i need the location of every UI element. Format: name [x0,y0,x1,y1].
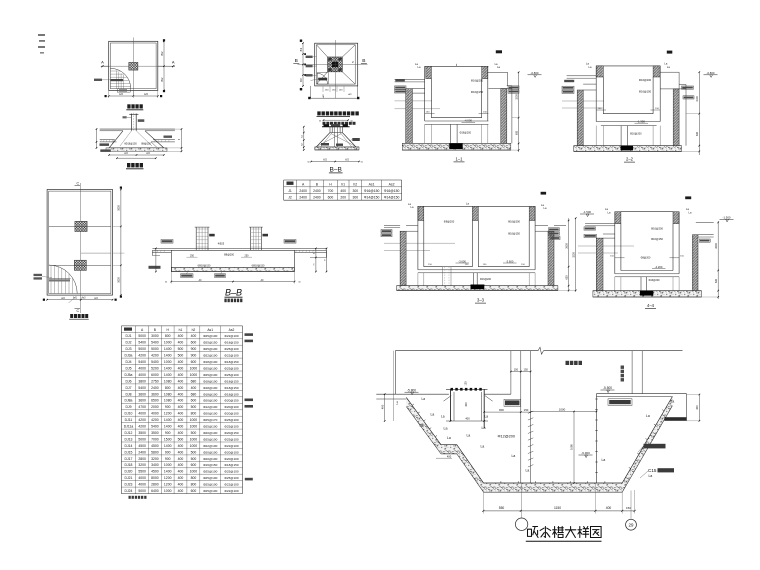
svg-text:Φ25@100: Φ25@100 [224,476,238,480]
svg-text:Φ20@150: Φ20@150 [224,431,238,435]
lining outer edge [406,406,672,493]
svg-text:B/2: B/2 [160,77,164,81]
svg-text:400: 400 [178,431,184,435]
svg-text:Φ25@100: Φ25@100 [203,334,217,338]
svg-text:500: 500 [191,457,197,461]
svg-text:5000: 5000 [138,437,146,441]
svg-text:Φ25@100: Φ25@100 [203,425,217,429]
svg-text:DJ10: DJ10 [125,412,133,416]
svg-text:J2: J2 [288,196,292,200]
svg-text:8000: 8000 [151,476,159,480]
svg-text:Φ12@100: Φ12@100 [203,405,217,409]
pit 4-4 top slab and heads [605,207,692,223]
raft section right dims [314,248,328,273]
svg-text:Φ25@100: Φ25@100 [224,373,238,377]
footing section right dims [164,128,183,152]
svg-text:-1.500: -1.500 [583,210,591,214]
svg-text:Φ22@100: Φ22@100 [203,444,217,448]
svg-text:Φ25@100: Φ25@100 [224,367,238,371]
svg-text:2400: 2400 [151,386,159,390]
svg-text:Φ22@100: Φ22@100 [224,444,238,448]
pit 2-2 sump pipe [621,126,643,151]
svg-text:h1: h1 [179,328,183,332]
svg-text:3200: 3200 [573,252,576,258]
raft plan column blocks [49,221,111,270]
svg-text:500: 500 [178,437,184,441]
svg-text:400: 400 [464,402,468,407]
svg-text:1000: 1000 [164,489,172,493]
pit 1-1 right upper step and elevation [488,71,542,86]
svg-text:Φ16@200: Φ16@200 [651,227,663,231]
svg-text:4Φ25: 4Φ25 [218,241,225,245]
svg-text:600: 600 [191,463,197,467]
svg-text:Φ25@100: Φ25@100 [224,437,238,441]
svg-text:Φ20@100: Φ20@100 [203,457,217,461]
pit 4-4 title [645,303,656,309]
svg-text:400: 400 [178,392,184,396]
pit 4-4 name blob [685,196,691,199]
svg-text:La: La [447,436,451,440]
svg-text:5400: 5400 [151,360,159,364]
pedestal J plan outer square [315,43,358,86]
svg-text:400: 400 [178,399,184,403]
svg-text:1000: 1000 [190,367,198,371]
svg-text:B/2: B/2 [160,51,164,55]
pedestal section title B-B [329,166,343,173]
svg-text:3600: 3600 [138,399,146,403]
svg-text:-1.350: -1.350 [637,120,645,124]
svg-text:1000: 1000 [190,373,198,377]
svg-text:DJ23: DJ23 [125,483,133,487]
svg-text:Φ18@100: Φ18@100 [203,386,217,390]
svg-text:Φ8@200: Φ8@200 [224,254,235,257]
pit 3-3 rebar texts [444,220,521,236]
drain circle plain [515,483,527,530]
pit 3-3 right dimensions [558,217,577,291]
svg-text:Φ20@150: Φ20@150 [224,399,238,403]
svg-text:Φ20@100: Φ20@100 [224,457,238,461]
raft section bottom dims [165,272,302,284]
svg-text:A/2: A/2 [323,159,327,162]
svg-text:A: A [101,60,104,65]
svg-text:5000: 5000 [118,205,121,211]
section marker B-B left [293,58,299,64]
svg-text:Φ22@100: Φ22@100 [224,354,238,358]
svg-text:7000: 7000 [151,437,159,441]
dim row 800 150 right of sump [483,408,531,413]
svg-text:Φ25@150: Φ25@150 [203,341,217,345]
svg-text:-1.500: -1.500 [723,216,731,220]
svg-text:400: 400 [178,373,184,377]
svg-text:Φ16@200: Φ16@200 [460,131,472,134]
svg-text:5000: 5000 [151,347,159,351]
svg-text:La: La [441,415,445,419]
svg-text:DJ14: DJ14 [125,444,133,448]
svg-text:200: 200 [340,196,346,200]
pit 2-2 name blob [667,51,673,54]
svg-text:4200: 4200 [151,354,159,358]
fig3 bottom dimension band [308,86,359,99]
svg-text:DJ7: DJ7 [125,386,131,390]
svg-text:Φ18@100: Φ18@100 [203,360,217,364]
right chamber wall [595,386,686,483]
svg-text:600: 600 [565,275,568,280]
svg-text:Φ16@150: Φ16@150 [471,90,484,94]
slope tick marks [412,404,664,483]
pit 4-4 right dimension [701,221,719,299]
pedestal section anchor text row [323,122,356,125]
pit 3-3 top slab and heads [408,202,547,221]
raft plan bottom dimension [43,296,117,303]
svg-text:Φ16@150: Φ16@150 [364,189,380,193]
svg-text:DJ9: DJ9 [125,405,131,409]
svg-text:1400: 1400 [164,354,172,358]
svg-text:1400: 1400 [164,470,172,474]
pit 2-2 chamber floor [596,108,660,146]
svg-text:5200: 5200 [151,367,159,371]
svg-text:Φ18@100: Φ18@100 [224,392,238,396]
svg-text:DJ5: DJ5 [125,367,131,371]
svg-text:600: 600 [328,196,334,200]
svg-text:680: 680 [191,379,197,383]
svg-text:As2: As2 [389,182,395,186]
svg-text:400: 400 [695,405,699,410]
svg-text:500: 500 [191,405,197,409]
pit 2-2 right upper step and elevation [660,71,717,89]
svg-text:700: 700 [328,189,334,193]
pit 1-1 left retaining wall [406,89,425,144]
left floor ledge [376,388,449,404]
svg-text:DJ20: DJ20 [125,470,133,474]
right side La labels [602,400,675,479]
svg-text:400: 400 [178,412,184,416]
svg-text:4200: 4200 [151,418,159,422]
pit 1-1 sump pipe [449,124,471,149]
svg-text:3500: 3500 [138,431,146,435]
svg-text:4500: 4500 [151,470,159,474]
detail left wall edge [394,351,396,421]
pit 4-4 bottom slab [593,291,702,297]
svg-text:1000: 1000 [190,425,198,429]
svg-text:A/2: A/2 [144,92,148,96]
svg-text:2400: 2400 [313,196,321,200]
svg-text:800: 800 [499,408,504,412]
pump room floor label blob [566,361,583,365]
svg-text:6400: 6400 [151,489,159,493]
fig1 bottom dimension line [105,90,163,98]
svg-text:400: 400 [178,334,184,338]
svg-text:Φ25@100: Φ25@100 [224,425,238,429]
svg-text:DJ6: DJ6 [125,379,131,383]
svg-text:400: 400 [178,450,184,454]
svg-text:1200: 1200 [164,483,172,487]
svg-text:1400: 1400 [164,367,172,371]
pedestal quarter arc detail [311,72,329,84]
svg-text:A/2: A/2 [119,92,123,96]
small sump box at channel head [444,381,511,428]
svg-text:1000: 1000 [164,463,172,467]
svg-text:1400: 1400 [164,444,172,448]
svg-text:250: 250 [245,254,250,257]
svg-text:4200: 4200 [138,425,146,429]
svg-text:1000: 1000 [190,444,198,448]
svg-text:400: 400 [178,405,184,409]
svg-text:Φ18@150: Φ18@150 [224,463,238,467]
svg-text:1400: 1400 [164,347,172,351]
pedestal center column block [328,57,343,72]
svg-text:Φ14@150: Φ14@150 [364,196,380,200]
svg-text:C15: C15 [648,468,657,473]
svg-text:6500: 6500 [151,399,159,403]
svg-text:J1: J1 [288,189,292,193]
svg-text:2400: 2400 [299,189,307,193]
raft section ground line [152,247,326,249]
svg-text:Φ22@100: Φ22@100 [224,489,238,493]
pit 3-3 right retaining wall [535,225,566,285]
svg-text:800: 800 [165,386,171,390]
svg-text:1150: 1150 [554,506,561,510]
svg-text:Φ18@150: Φ18@150 [224,386,238,390]
svg-text:5000: 5000 [138,489,146,493]
svg-text:2000: 2000 [151,405,159,409]
table side annotations [245,333,254,480]
svg-text:4200: 4200 [138,354,146,358]
pit 2-2 left retaining wall [577,84,596,146]
mid La labels [481,445,530,473]
svg-text:500: 500 [191,431,197,435]
svg-text:Φ18@150: Φ18@150 [224,360,238,364]
svg-text:DJ13: DJ13 [125,437,133,441]
svg-text:5400: 5400 [151,341,159,345]
pit 1-1 right dimension [511,72,520,153]
svg-text:2600: 2600 [565,243,568,249]
svg-text:800: 800 [191,412,197,416]
waterproof mortar leader label right [638,444,666,452]
pit 1-1 chamber walls [425,66,488,121]
svg-text:680: 680 [191,392,197,396]
pit 1-1 chamber floor and slab [425,111,489,143]
svg-text:DJ1: DJ1 [125,334,131,338]
svg-text:4500: 4500 [138,444,146,448]
svg-text:400: 400 [178,367,184,371]
svg-text:Φ8@200: Φ8@200 [444,220,455,224]
pedestal bottom dim [307,159,363,164]
svg-text:DJ8: DJ8 [125,392,131,396]
pit 2-2 bottom slab [574,146,682,152]
table of column footings DJ [121,326,242,494]
svg-text:-0.800: -0.800 [531,71,539,75]
svg-text:800: 800 [191,483,197,487]
footing section bottom dims [108,152,164,159]
svg-text:2400: 2400 [313,189,321,193]
svg-text:1000: 1000 [164,360,172,364]
raft section columns [195,227,268,250]
svg-text:400: 400 [178,418,184,422]
svg-text:600: 600 [191,341,197,345]
raft section labels [149,240,297,269]
svg-text:2400: 2400 [138,450,146,454]
svg-text:DJ4: DJ4 [125,360,131,364]
svg-text:900: 900 [191,354,197,358]
svg-text:-3.600: -3.600 [458,259,466,263]
svg-text:400: 400 [191,334,197,338]
pit 3-3 name blob [541,192,547,195]
svg-text:Φ22@100: Φ22@100 [224,334,238,338]
raft plan title [69,314,89,319]
svg-text:150: 150 [514,367,519,371]
svg-text:Φ25@100: Φ25@100 [224,418,238,422]
svg-text:6Φ18@150: 6Φ18@150 [198,264,211,267]
svg-text:DJ11: DJ11 [125,418,133,422]
svg-text:B–B: B–B [225,288,242,298]
svg-text:1400: 1400 [164,373,172,377]
svg-text:29: 29 [629,523,634,528]
pit 4-4 left retaining wall [596,234,615,291]
svg-text:1080: 1080 [570,444,574,450]
pit 2-2 right dimension [682,71,701,155]
fig1 right dimension line [160,39,165,92]
svg-text:Φ20@100: Φ20@100 [203,412,217,416]
sump La labels [420,413,489,441]
svg-text:Φ25@100: Φ25@100 [203,476,217,480]
waterproof mortar box label upper [504,399,521,406]
svg-text:DJ18: DJ18 [125,463,133,467]
pit 1-1 chamber rebar text [471,78,484,94]
svg-text:3200: 3200 [138,463,146,467]
svg-text:5500: 5500 [138,470,146,474]
svg-text:La: La [395,401,399,405]
svg-text:3200: 3200 [515,94,518,100]
svg-text:1080: 1080 [164,392,172,396]
svg-text:Φ16@200: Φ16@200 [471,78,484,82]
svg-text:3600: 3600 [138,392,146,396]
svg-text:1–1: 1–1 [456,156,464,161]
svg-text:La: La [482,426,486,430]
svg-text:Φ25@170: Φ25@170 [203,418,217,422]
svg-text:La: La [481,445,485,449]
svg-text:Φ18@150: Φ18@150 [224,341,238,345]
pit 1-1 name blob [496,50,502,53]
svg-text:4000: 4000 [138,373,146,377]
svg-text:Φ8@200: Φ8@200 [641,257,651,260]
svg-text:1000: 1000 [190,418,198,422]
svg-text:Φ16@150: Φ16@150 [651,237,663,241]
svg-text:400: 400 [178,483,184,487]
svg-text:La: La [467,434,471,438]
pit 4-4 left elevation and ground [578,210,634,253]
svg-text:400: 400 [178,489,184,493]
drain pipe right pair with label [621,351,643,394]
svg-text:600: 600 [191,489,197,493]
svg-text:3500: 3500 [151,431,159,435]
svg-text:-3.600: -3.600 [506,259,514,263]
svg-text:400: 400 [178,457,184,461]
svg-text:2800: 2800 [151,483,159,487]
svg-text:La: La [649,474,653,478]
raft section wings [152,250,326,257]
fig1 title [126,104,143,110]
svg-text:Φ16@200: Φ16@200 [508,220,520,224]
table footnote [129,496,147,499]
raft section left dim [155,248,157,273]
svg-text:3400: 3400 [151,463,159,467]
pit 2-2 right wall [660,85,694,146]
svg-text:1500: 1500 [164,437,172,441]
svg-text:DJ24: DJ24 [125,489,133,493]
pit 1-1 left ground lines and labels [395,79,441,109]
svg-text:400: 400 [178,341,184,345]
svg-text:Φ16@200: Φ16@200 [639,78,652,82]
right waterproof label box [608,399,632,406]
svg-text:DJ17: DJ17 [125,457,133,461]
svg-text:6Φ16@150: 6Φ16@150 [124,142,137,145]
svg-text:Φ16@200: Φ16@200 [630,133,642,136]
svg-text:A/2: A/2 [345,159,349,162]
raft plan centerline and C marks [75,182,81,314]
right buried beam dark band [664,394,686,421]
fig3 left dimension column [300,40,317,91]
svg-text:1000: 1000 [190,470,198,474]
pedestal right leader label [349,138,360,141]
pit 2-2 top slab and wall heads [586,62,670,78]
svg-text:2800: 2800 [138,457,146,461]
svg-text:Φ25@100: Φ25@100 [203,483,217,487]
pit 4-4 rebar texts [651,227,663,242]
raft plan outer rect [47,190,112,296]
svg-text:La: La [444,427,448,431]
svg-text:1080: 1080 [164,379,172,383]
footing section labels [100,136,173,152]
svg-text:6000: 6000 [151,373,159,377]
svg-text:600: 600 [191,399,197,403]
pit 2-2 title [624,157,635,163]
svg-text:-0.800: -0.800 [707,71,715,75]
rebar ladder callout phi12 [498,411,534,467]
svg-text:2750: 2750 [151,379,159,383]
pit 2-2 left ground and labels [562,76,604,108]
svg-text:C: C [77,182,80,186]
drain pipe left pair [510,351,531,483]
svg-text:DJ5a: DJ5a [125,373,133,377]
C15 plain concrete label [640,468,674,478]
svg-text:La: La [646,414,650,418]
svg-text:3200: 3200 [151,457,159,461]
svg-text:400: 400 [380,404,384,409]
pit 3-3 bottom slab [397,285,558,291]
svg-text:Φ18@100: Φ18@100 [203,379,217,383]
pit 1-1 right wall and casing [488,86,519,144]
svg-text:100: 100 [465,381,468,386]
svg-text:1400: 1400 [164,418,172,422]
svg-text:B–B: B–B [330,166,342,173]
svg-text:4000: 4000 [151,412,159,416]
svg-text:Φ16@150: Φ16@150 [508,232,520,236]
svg-text:Φ20@100: Φ20@100 [203,450,217,454]
svg-text:Φ25@100: Φ25@100 [203,367,217,371]
svg-text:Φ20@100: Φ20@100 [203,431,217,435]
svg-text:Φ25@100: Φ25@100 [203,347,217,351]
footing section left dims [96,128,98,148]
svg-text:Φ25@100: Φ25@100 [224,470,238,474]
lining inner edge [406,397,672,484]
svg-text:La: La [422,397,426,401]
svg-text:4000: 4000 [138,476,146,480]
svg-text:1200: 1200 [164,412,172,416]
svg-text:1200: 1200 [164,476,172,480]
svg-text:DJ15: DJ15 [125,450,133,454]
svg-text:4200: 4200 [138,418,146,422]
svg-text:As1: As1 [207,328,213,332]
